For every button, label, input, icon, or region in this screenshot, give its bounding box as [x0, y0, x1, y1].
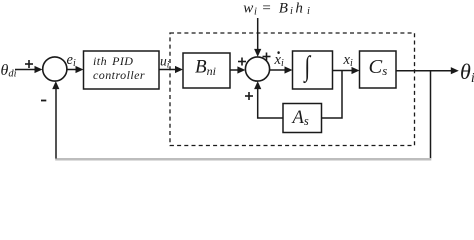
block integrator — [293, 51, 333, 89]
block A_s — [283, 104, 322, 133]
wire w_i down into S2 — [254, 18, 261, 57]
summing junction S2 — [245, 57, 269, 81]
wire integrator to C_s with junction node — [333, 67, 360, 74]
svg-text:h: h — [295, 0, 303, 16]
plus sign at S2 left input — [238, 58, 246, 66]
wire PID to B_ni — [159, 66, 183, 73]
summing junction S1 — [43, 57, 67, 81]
svg-text:i: i — [254, 7, 257, 18]
wire input into summing junction S1 — [15, 66, 43, 73]
svg-text:w: w — [243, 0, 253, 16]
svg-text:i: i — [307, 6, 310, 17]
block B_ni — [183, 53, 230, 88]
dashed subsystem box — [170, 33, 415, 146]
svg-text:i: i — [290, 6, 293, 17]
plus sign at S2 top input — [263, 53, 271, 61]
wire S1 to PID block — [67, 66, 84, 73]
wire outer feedback bottom run (faded) — [55, 158, 431, 161]
svg-text:controller: controller — [93, 68, 145, 82]
wire C_s to output theta — [396, 67, 459, 74]
plus sign at S2 bottom input — [245, 92, 253, 100]
svg-text:B: B — [279, 0, 288, 16]
block ith PID controller — [84, 51, 160, 89]
plus sign at S1 input — [25, 60, 33, 68]
node theta_di input label — [1, 62, 17, 80]
wire S2 to integrator — [270, 66, 293, 73]
node xdot_i — [274, 51, 284, 69]
wire B_ni to summing junction S2 — [230, 66, 245, 73]
svg-text:=: = — [261, 0, 271, 16]
wire outer feedback from output branch down — [430, 71, 432, 159]
svg-text:∫: ∫ — [303, 52, 311, 84]
wire feedback tap from x_i down to A_s — [322, 71, 343, 119]
wire outer feedback up into S1 — [52, 81, 59, 158]
svg-text:ith PID: ith PID — [93, 54, 133, 68]
block C_s — [360, 51, 397, 88]
wire A_s output up into S2 — [254, 81, 283, 118]
minus sign at S1 feedback input — [41, 100, 46, 102]
node w_i = B_i h_i — [243, 0, 310, 17]
